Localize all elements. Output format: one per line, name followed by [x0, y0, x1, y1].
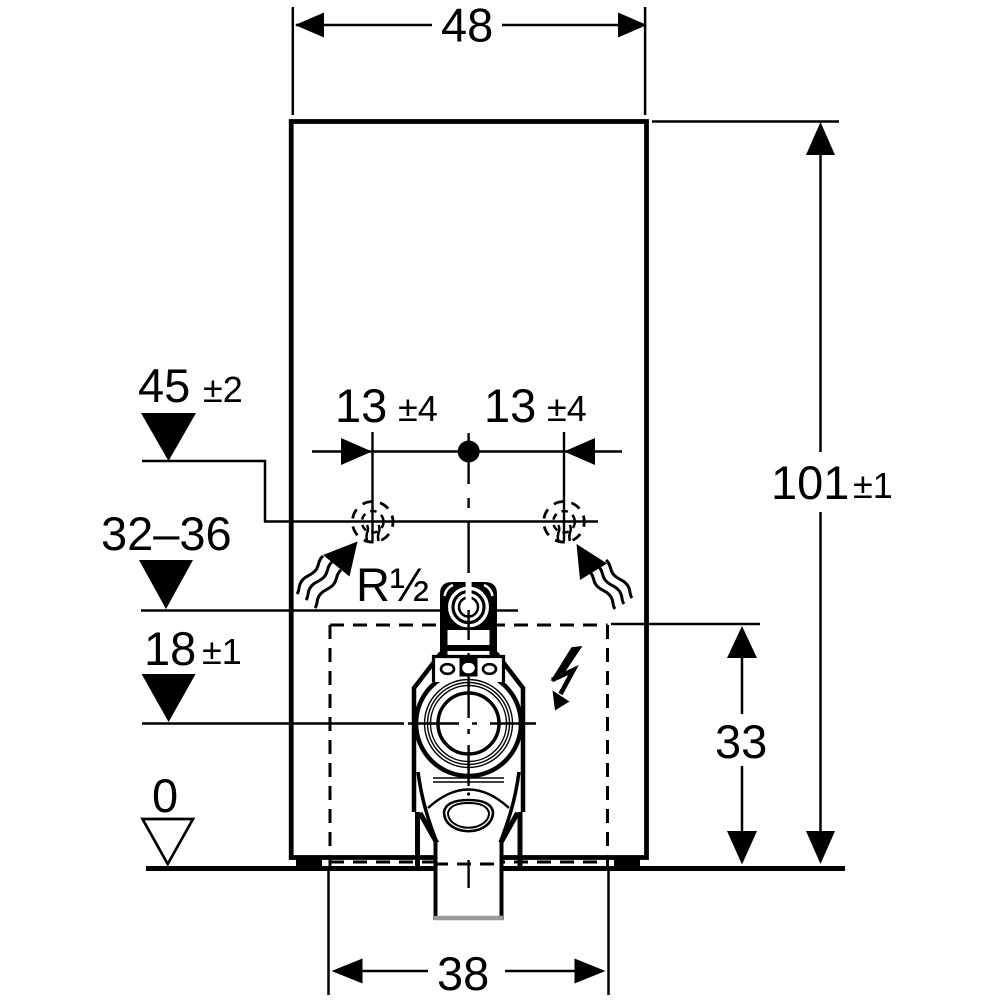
level 32-36 leader — [141, 609, 518, 612]
trap hood arc — [428, 790, 509, 809]
lightning bolt — [551, 646, 583, 681]
level 0 open triangle — [143, 819, 194, 864]
panel foot left — [296, 860, 322, 867]
flange hole left — [441, 664, 454, 674]
big bullseye outer — [416, 671, 521, 776]
svg-text:101: 101 — [771, 456, 849, 509]
dim 38 arrow right — [575, 959, 606, 984]
trap band lines — [433, 778, 504, 782]
dim 33 arrow top — [727, 626, 757, 658]
squiggle arrow left — [297, 542, 358, 609]
dim 48 arrow right — [618, 13, 647, 38]
dim 38 arrow left — [332, 959, 363, 984]
svg-text:±1: ±1 — [853, 465, 893, 506]
svg-text:±4: ±4 — [547, 388, 587, 429]
svg-text:33: 33 — [715, 715, 767, 768]
dim 33 arrow bottom — [727, 831, 757, 865]
dim 33 line — [741, 656, 744, 714]
dim 13 center dot — [458, 441, 480, 463]
ground line — [146, 866, 845, 871]
trap oval outer — [444, 800, 493, 831]
centerline horizontal of bullseye — [408, 722, 459, 724]
svg-text:13: 13 — [484, 379, 536, 432]
level 32-36 triangle — [139, 560, 193, 609]
flange hole right — [483, 664, 496, 674]
water connection circle left — [352, 502, 393, 543]
level 18 triangle — [142, 674, 196, 722]
dim 13 line — [312, 450, 622, 453]
dim 38 extension right — [607, 871, 610, 995]
panel foot right — [614, 860, 640, 867]
outlet pipe — [435, 842, 504, 920]
water connection circle right — [544, 502, 585, 543]
svg-text:32–36: 32–36 — [101, 507, 232, 560]
fitting flange plate — [434, 657, 504, 683]
svg-text:18: 18 — [144, 622, 196, 675]
ground dashes across outlet — [434, 863, 503, 866]
dim 13 extension line right — [563, 432, 565, 541]
svg-text:48: 48 — [441, 0, 493, 52]
svg-text:±1: ±1 — [202, 631, 242, 672]
dim 48 arrow left — [295, 13, 324, 38]
dim 48 extension line left — [292, 7, 295, 115]
dim 48 extension line right — [644, 7, 647, 115]
flange middle block — [460, 657, 478, 677]
dashed box left side — [329, 625, 332, 868]
dashed box bottom — [330, 861, 608, 864]
dashed box right side — [606, 625, 609, 868]
bracket left — [415, 812, 420, 866]
fitting neck legs — [440, 628, 448, 655]
dim 33 leader — [611, 623, 760, 626]
dim 101 line — [819, 152, 822, 452]
trap sides — [418, 772, 519, 843]
big bullseye inner — [438, 693, 499, 754]
big bullseye thin rings — [425, 680, 513, 768]
drain fitting — [414, 582, 523, 920]
fitting top block rings — [448, 587, 489, 628]
flange hole middle — [461, 662, 476, 675]
panel outline — [291, 122, 646, 858]
dim 13 arrow left — [341, 438, 372, 465]
dim 13 arrow right — [564, 438, 595, 465]
dim 101 arrow top — [806, 122, 835, 155]
dim 48 line — [296, 24, 432, 27]
level 18 leader — [142, 722, 404, 725]
squiggle arrow right — [577, 544, 633, 609]
dashed box top — [330, 624, 608, 627]
svg-text:±4: ±4 — [398, 388, 438, 429]
fitting top block — [440, 582, 497, 630]
svg-text:0: 0 — [152, 769, 178, 822]
dim 38 line — [362, 970, 428, 973]
bracket right — [518, 812, 523, 866]
fitting top block corner highlights — [445, 585, 454, 596]
centerline vertical — [467, 433, 469, 484]
dim 13 extension line left — [371, 432, 373, 541]
svg-text:38: 38 — [437, 947, 489, 1000]
dim 101 arrow bottom — [806, 831, 835, 864]
fitting flange bar — [445, 645, 492, 651]
svg-text:45: 45 — [138, 359, 190, 412]
svg-text:±2: ±2 — [203, 369, 243, 410]
svg-text:R½: R½ — [356, 558, 429, 611]
dim 38 extension left — [327, 871, 330, 995]
centerline through block (white) — [466, 582, 472, 606]
dim 101 leader — [652, 120, 839, 123]
svg-text:13: 13 — [335, 379, 387, 432]
level 45 leader stepped — [142, 461, 598, 522]
trap oval inner — [448, 803, 489, 828]
fitting body octagon outline — [414, 653, 523, 812]
level 45 triangle — [141, 413, 196, 461]
